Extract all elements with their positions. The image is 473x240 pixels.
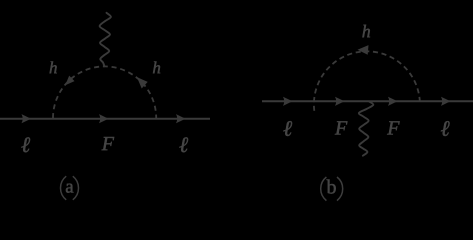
label lepton l (b) far right <box>440 116 450 141</box>
label h (b) <box>362 21 371 41</box>
svg-text:F: F <box>101 133 115 155</box>
svg-text:b: b <box>326 176 336 198</box>
svg-text:ℓ: ℓ <box>283 116 293 141</box>
arrowhead on arc (a), right side, pointing up-left <box>137 77 148 88</box>
arrowhead on fermion line (a) at x=181 <box>176 114 186 123</box>
arrowhead on fermion line (b) at x=446 <box>441 97 451 106</box>
svg-text:F: F <box>334 117 348 139</box>
label F (b) right <box>386 117 400 139</box>
arrowhead on fermion line (b) at x=340 <box>335 97 345 106</box>
svg-text:h: h <box>49 58 58 77</box>
caption (b) <box>321 176 343 200</box>
label lepton l (a) left <box>21 132 31 157</box>
svg-text:ℓ: ℓ <box>21 132 31 157</box>
arrowhead on fermion line (b) at x=288 <box>283 97 293 106</box>
arrowhead on arc (a), left side, pointing down-left <box>65 76 74 86</box>
photon line (b): wavy external going down from line <box>359 102 373 156</box>
arrowhead on fermion line (a) at x=104 <box>99 114 109 123</box>
caption (a) <box>61 176 79 200</box>
label F (a) <box>101 133 115 155</box>
arrowhead on arc (b) at apex, pointing left <box>358 45 369 55</box>
label F (b) left <box>334 117 348 139</box>
svg-text:F: F <box>386 117 400 139</box>
label h (a) right <box>152 58 161 77</box>
wire: fermion line (b), lepton/F propagator <box>262 100 473 102</box>
svg-text:h: h <box>152 58 161 77</box>
svg-text:ℓ: ℓ <box>440 116 450 141</box>
arrowhead on fermion line (a) at x=27 <box>22 114 32 123</box>
photon line (a): wavy external from top to arc apex <box>100 13 111 67</box>
svg-text:h: h <box>362 21 371 41</box>
label lepton l (b) far left <box>283 116 293 141</box>
arrowhead on fermion line (b) at x=393 <box>388 97 398 106</box>
label lepton l (a) right <box>179 132 189 157</box>
scalar h loop: dashed arc (a) <box>53 66 156 118</box>
wire: fermion line (a), lepton/F propagator <box>0 118 210 120</box>
label h (a) left <box>49 58 58 77</box>
scalar h loop: dashed arc (b) <box>314 51 420 110</box>
svg-text:a: a <box>65 177 74 198</box>
svg-text:ℓ: ℓ <box>179 132 189 157</box>
